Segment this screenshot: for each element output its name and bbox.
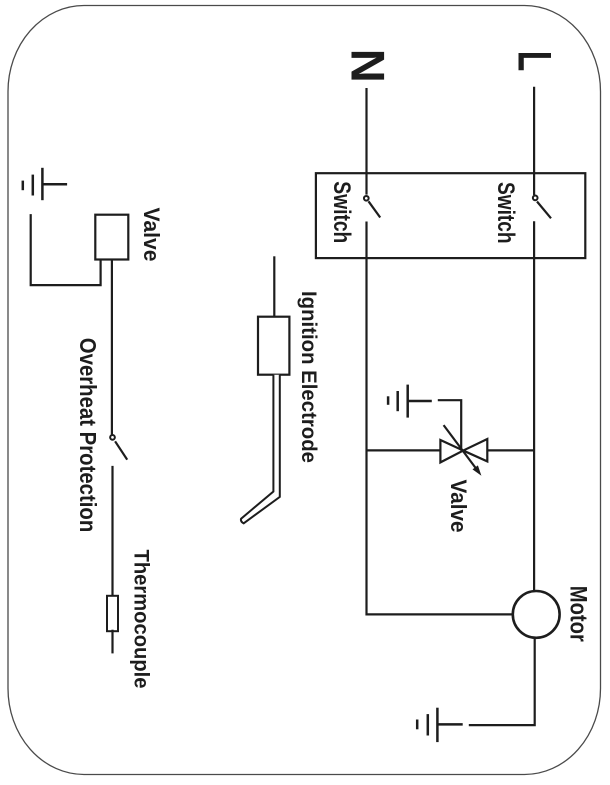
svg-text:Motor: Motor bbox=[565, 586, 592, 642]
svg-text:Valve: Valve bbox=[139, 208, 164, 262]
svg-text:L: L bbox=[508, 51, 561, 72]
svg-text:Switch: Switch bbox=[328, 181, 355, 243]
svg-text:Valve: Valve bbox=[446, 480, 471, 533]
svg-text:Ignition Electrode: Ignition Electrode bbox=[297, 291, 321, 463]
svg-text:Thermocouple: Thermocouple bbox=[130, 550, 154, 689]
svg-text:N: N bbox=[341, 49, 394, 83]
svg-text:Overheat Protection: Overheat Protection bbox=[75, 338, 101, 533]
svg-text:Switch: Switch bbox=[492, 182, 519, 244]
